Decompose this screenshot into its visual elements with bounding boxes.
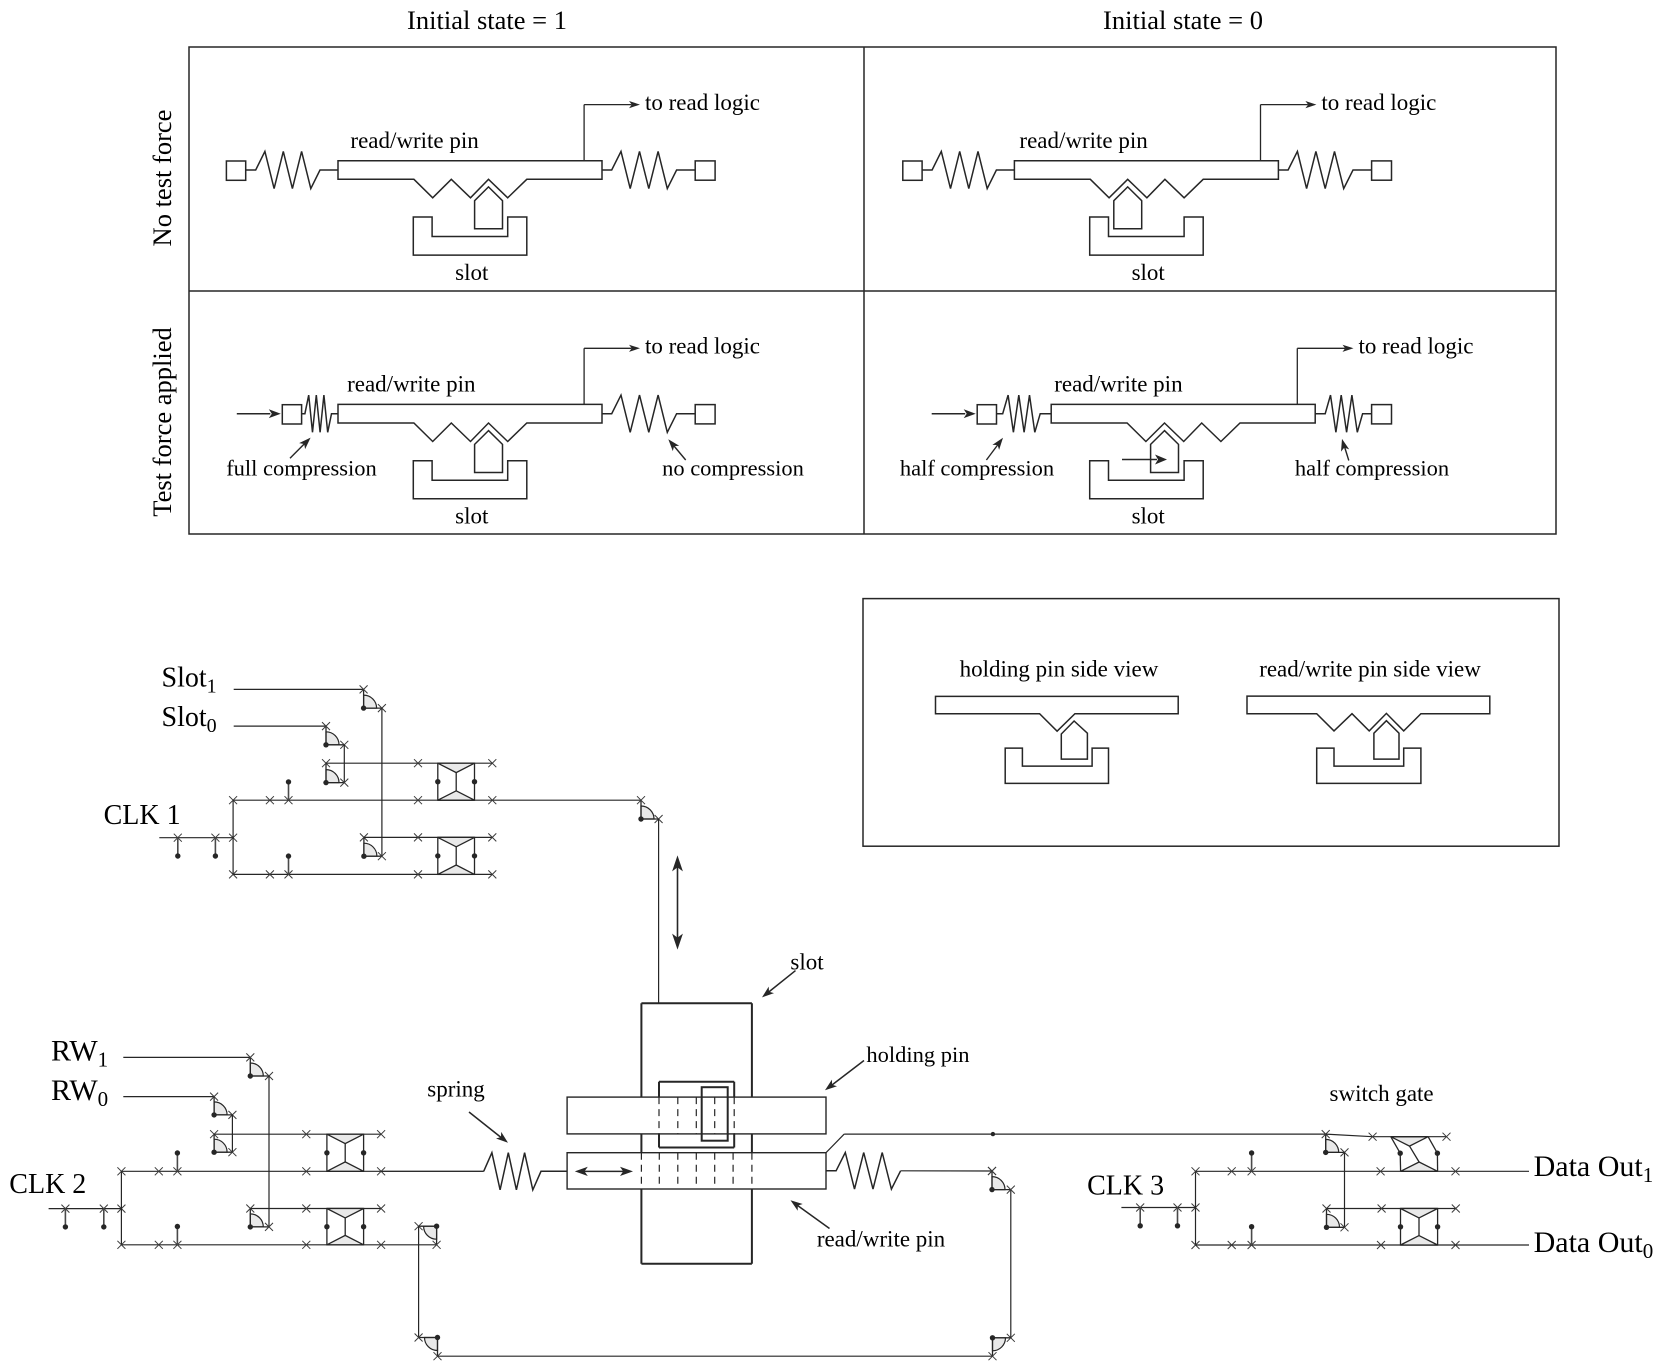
svg-text:Data Out0: Data Out0 bbox=[1534, 1226, 1654, 1263]
read/write pin (side view) slot bbox=[1317, 748, 1421, 783]
switch gate (Data Out1, disengaged) bbox=[1391, 1137, 1440, 1172]
cell C (state1,force): test force arrow (left) bbox=[237, 409, 281, 418]
holding pin (side view) tip bbox=[1061, 721, 1087, 759]
read/write pin right pivot joint bbox=[988, 1167, 1015, 1194]
CLK1 pivot joint (turn down) bbox=[637, 796, 663, 823]
cell C (state1,force): right spring bbox=[602, 395, 695, 432]
CLK1 input wire bbox=[159, 834, 237, 842]
CLK1 upper branch anchor bbox=[285, 779, 293, 804]
cell B (state0,no force): left anchor square bbox=[903, 161, 922, 180]
cell C (state1,force): left anchor square bbox=[282, 405, 301, 424]
bottom-left pivot joint bbox=[415, 1334, 442, 1361]
svg-text:read/write pin: read/write pin bbox=[347, 372, 476, 397]
svg-text:slot: slot bbox=[1132, 260, 1166, 285]
svg-text:half compression: half compression bbox=[1295, 456, 1449, 481]
read/write pin label arrow bbox=[791, 1200, 830, 1228]
svg-text:spring: spring bbox=[427, 1076, 485, 1101]
cell A (state1,no force): right spring bbox=[602, 151, 695, 188]
slot label arrow bbox=[762, 971, 796, 998]
spring (left, CLK2 to pin) bbox=[121, 1153, 567, 1190]
CLK1 lower branch anchor bbox=[285, 853, 293, 878]
cell A (state1,no force): left spring bbox=[246, 151, 338, 188]
svg-text:CLK 3: CLK 3 bbox=[1087, 1171, 1164, 1202]
cell B (state0,no force): slot bracket bbox=[1090, 217, 1204, 255]
cell D (state0,force): pin tip bbox=[1151, 431, 1179, 473]
svg-text:Initial state = 1: Initial state = 1 bbox=[407, 5, 567, 35]
svg-text:full compression: full compression bbox=[226, 456, 377, 481]
CLK2 upper branch wire bbox=[121, 1167, 483, 1175]
read/write pin side view label bbox=[1259, 657, 1481, 682]
cell A (state1,no force): left anchor square bbox=[226, 161, 245, 180]
holding pin label bbox=[866, 1042, 969, 1067]
cell D half compression arrow (right) bbox=[1341, 439, 1349, 461]
cell B (state0,no force): wire to read logic bbox=[1261, 101, 1317, 161]
RW0 vertical wire bbox=[231, 1115, 233, 1152]
spring label arrow bbox=[469, 1112, 508, 1143]
Slot0 vertical wire bbox=[343, 745, 345, 783]
Data Out1 label bbox=[1534, 1150, 1654, 1187]
cell C (state1,force): left spring (fully compressed) bbox=[302, 395, 338, 432]
svg-text:read/write pin: read/write pin bbox=[1019, 128, 1148, 153]
svg-text:no compression: no compression bbox=[662, 456, 804, 481]
cell C no compression arrow bbox=[668, 439, 685, 460]
cell D (state0,force): read/write pin bar bbox=[1051, 404, 1315, 441]
holding pin (side view) slot bbox=[1005, 748, 1108, 783]
cell D (state0,force): slot bracket bbox=[1090, 461, 1204, 499]
svg-text:half compression: half compression bbox=[900, 456, 1054, 481]
Slot1 pivot joint (turn right) bbox=[360, 833, 386, 860]
slot hole (top view) bbox=[659, 1082, 734, 1148]
table row divider bbox=[189, 290, 1556, 292]
cell D (state0,force): wire to read logic bbox=[1297, 345, 1353, 405]
RW0 output wire bbox=[214, 1130, 385, 1138]
RW1 wire bbox=[123, 1056, 250, 1058]
read/write pin output diagonal bbox=[826, 1134, 844, 1153]
Slot0 output wire bbox=[326, 759, 496, 767]
row title: Test force applied bbox=[147, 327, 177, 516]
wire spring feed bbox=[381, 1170, 484, 1172]
switch gate label bbox=[1330, 1081, 1434, 1106]
svg-text:Initial state = 0: Initial state = 0 bbox=[1103, 5, 1263, 35]
transmission element (Data Out0 gate) bbox=[1398, 1209, 1441, 1246]
output wire slope to switch gate bbox=[1326, 1133, 1451, 1141]
cell D (state0,force): test force arrow (left) bbox=[932, 409, 976, 418]
holding pin (side view) bar bbox=[936, 696, 1179, 731]
transmission element (Slot1/CLK1) bbox=[435, 837, 477, 874]
cell A (state1,no force): slot bracket bbox=[413, 217, 527, 255]
cell A (state1,no force): pin tip bbox=[475, 187, 503, 229]
table column divider bbox=[863, 47, 865, 534]
cell C (state1,force): slot bracket bbox=[413, 461, 527, 499]
slot block (top view) bbox=[641, 1003, 752, 1264]
svg-text:to read logic: to read logic bbox=[645, 90, 760, 115]
read/write pin (side view) tip bbox=[1374, 721, 1399, 759]
svg-text:slot: slot bbox=[1132, 504, 1166, 529]
svg-text:CLK 2: CLK 2 bbox=[9, 1169, 86, 1200]
cell C (state1,force): wire to read logic bbox=[584, 345, 640, 405]
svg-text:slot: slot bbox=[455, 260, 489, 285]
svg-text:read/write pin side view: read/write pin side view bbox=[1259, 657, 1481, 682]
cell A (state1,no force): slot label bbox=[455, 260, 489, 285]
transmission element (Slot0/CLK1) bbox=[435, 763, 477, 800]
CLK2 input anchor 2 bbox=[100, 1205, 108, 1230]
Slot1 output wire bbox=[364, 833, 496, 841]
wire to right pivot bbox=[901, 1167, 996, 1175]
CLK3 input anchor 2 bbox=[1174, 1204, 1182, 1229]
CLK1 input anchor 2 bbox=[211, 834, 219, 859]
cell D (state0,force): right anchor square bbox=[1372, 405, 1392, 424]
hidden slot walls (read/write pin) bbox=[659, 1153, 733, 1189]
CLK3 lower branch wire (Data Out0) bbox=[1196, 1241, 1530, 1249]
right riser wire bbox=[1010, 1190, 1012, 1338]
column title: Initial state = 1 bbox=[407, 5, 567, 35]
cell D half compression label (left) bbox=[900, 456, 1054, 481]
cell B (state0,no force): slot label bbox=[1132, 260, 1166, 285]
transmission element (RW0/CLK2) bbox=[324, 1134, 366, 1171]
RW1 pivot joint (turn down) bbox=[246, 1053, 273, 1080]
transmission element (RW1/CLK2) bbox=[324, 1209, 366, 1245]
CLK2 lower branch wire bbox=[121, 1241, 436, 1249]
read/write pin bar (top view) bbox=[567, 1153, 826, 1189]
read/write pin output wire bbox=[844, 1132, 1325, 1136]
cell B (state0,no force): pin tip bbox=[1114, 187, 1142, 229]
cell D (state0,force): slot label bbox=[1132, 504, 1166, 529]
output wire pivot joint (branch down) bbox=[1322, 1130, 1349, 1156]
svg-text:Test force applied: Test force applied bbox=[147, 327, 177, 516]
Data Out0 gate input wire bbox=[1327, 1205, 1460, 1213]
cell D (state0,force): read/write pin label bbox=[1054, 372, 1183, 397]
svg-text:slot: slot bbox=[455, 504, 489, 529]
cell C (state1,force): read/write pin label bbox=[347, 372, 476, 397]
CLK3 input wire bbox=[1121, 1204, 1199, 1212]
gate feed vertical wire bbox=[1344, 1152, 1346, 1227]
Slot1 wire bbox=[234, 688, 364, 690]
CLK3 upper branch wire (Data Out1) bbox=[1196, 1167, 1530, 1175]
cell A (state1,no force): to read logic label bbox=[645, 90, 760, 115]
CLK1 drop wire to slot bbox=[658, 819, 660, 1003]
hidden slot walls (holding pin) bbox=[678, 1097, 715, 1134]
cell D (state0,force): to read logic label bbox=[1359, 334, 1474, 359]
CLK2 input anchor 1 bbox=[61, 1205, 69, 1230]
cell D half compression arrow (left) bbox=[986, 438, 1003, 460]
svg-text:holding pin: holding pin bbox=[866, 1042, 969, 1067]
cell C (state1,force): slot label bbox=[455, 504, 489, 529]
svg-text:No test force: No test force bbox=[147, 110, 177, 247]
holding pin label arrow bbox=[825, 1061, 864, 1091]
CLK2 pivot joint (turn down) bbox=[415, 1222, 441, 1249]
RW0 pivot joint (turn down) bbox=[210, 1093, 236, 1119]
row title: No test force bbox=[147, 110, 177, 247]
RW0 label bbox=[51, 1074, 108, 1111]
spring label bbox=[427, 1076, 485, 1101]
Slot0 pivot joint (turn right) bbox=[322, 759, 348, 786]
CLK3 upper branch anchor bbox=[1248, 1150, 1256, 1175]
spring (right, pin to joint) bbox=[826, 1153, 901, 1190]
svg-text:holding pin side view: holding pin side view bbox=[960, 657, 1159, 682]
cell C no compression label bbox=[662, 456, 804, 481]
RW1 label bbox=[51, 1035, 108, 1072]
cell B (state0,no force): right anchor square bbox=[1372, 161, 1392, 180]
cell C full compression arrow bbox=[290, 438, 311, 459]
svg-text:to read logic: to read logic bbox=[1321, 90, 1436, 115]
read/write pin label (center) bbox=[817, 1227, 946, 1252]
RW1 pivot joint (turn right) bbox=[246, 1205, 273, 1231]
cell D (state0,force): left anchor square bbox=[977, 405, 996, 424]
RW0 wire bbox=[123, 1096, 214, 1098]
RW1 output wire bbox=[250, 1205, 385, 1213]
read/write pin motion arrow (horizontal) bbox=[575, 1167, 633, 1176]
CLK1 branch vertical bbox=[229, 796, 237, 878]
CLK3 lower branch anchor bbox=[1248, 1224, 1256, 1249]
svg-text:CLK 1: CLK 1 bbox=[104, 800, 181, 831]
cell A (state1,no force): read/write pin bar bbox=[338, 161, 602, 198]
cell C (state1,force): read/write pin bar bbox=[338, 404, 602, 441]
cell B (state0,no force): read/write pin bar bbox=[1014, 161, 1278, 198]
svg-text:to read logic: to read logic bbox=[645, 334, 760, 359]
svg-text:to read logic: to read logic bbox=[1359, 334, 1474, 359]
cell B (state0,no force): left spring bbox=[922, 151, 1014, 188]
cell D (state0,force): right spring (half compressed) bbox=[1315, 395, 1371, 432]
CLK 2 label bbox=[9, 1169, 86, 1200]
Slot0 label bbox=[162, 702, 217, 737]
CLK 3 label bbox=[1087, 1171, 1164, 1202]
slot label (center) bbox=[790, 950, 824, 975]
cell C (state1,force): pin tip bbox=[475, 431, 503, 473]
CLK2 input wire bbox=[49, 1205, 126, 1213]
cell D (state0,force): left spring (half compressed) bbox=[997, 395, 1052, 432]
svg-text:Data Out1: Data Out1 bbox=[1534, 1150, 1654, 1187]
CLK3 input anchor 1 bbox=[1136, 1204, 1144, 1229]
Data Out0 label bbox=[1534, 1226, 1654, 1263]
CLK2 lower branch anchor bbox=[173, 1224, 181, 1249]
read/write pin (side view) bar bbox=[1247, 696, 1490, 731]
CLK2 branch vertical bbox=[117, 1167, 125, 1249]
cell A (state1,no force): right anchor square bbox=[695, 161, 715, 180]
CLK2 drop wire bbox=[418, 1226, 420, 1337]
side view box frame bbox=[863, 599, 1559, 847]
cell B (state0,no force): right spring bbox=[1278, 151, 1371, 188]
cell A (state1,no force): wire to read logic bbox=[584, 101, 640, 161]
svg-text:read/write pin: read/write pin bbox=[350, 128, 479, 153]
slot motion arrow (vertical) bbox=[672, 855, 683, 949]
bottom-right pivot joint bbox=[989, 1334, 1015, 1360]
CLK 1 label bbox=[104, 800, 181, 831]
gate feed pivot joint bbox=[1323, 1205, 1349, 1232]
cell B (state0,no force): read/write pin label bbox=[1019, 128, 1148, 153]
CLK1 input anchor 1 bbox=[174, 834, 182, 859]
cell B (state0,no force): to read logic label bbox=[1321, 90, 1436, 115]
svg-text:read/write pin: read/write pin bbox=[1054, 372, 1183, 397]
holding pin side view label bbox=[960, 657, 1159, 682]
Slot0 wire bbox=[234, 725, 326, 727]
CLK2 upper branch anchor bbox=[173, 1150, 181, 1175]
holding pin bar (top view) bbox=[567, 1097, 826, 1134]
cell A (state1,no force): read/write pin label bbox=[350, 128, 479, 153]
cell C (state1,force): to read logic label bbox=[645, 334, 760, 359]
cell D tip motion arrow bbox=[1122, 455, 1167, 465]
table frame bbox=[189, 47, 1556, 534]
CLK1 lower branch wire bbox=[233, 870, 496, 878]
RW0 pivot joint (turn right) bbox=[210, 1130, 236, 1156]
column title: Initial state = 0 bbox=[1103, 5, 1263, 35]
Slot1 vertical wire bbox=[381, 708, 383, 856]
bottom return wire bbox=[438, 1355, 993, 1357]
cell D half compression label (right) bbox=[1295, 456, 1449, 481]
svg-text:switch gate: switch gate bbox=[1330, 1081, 1434, 1106]
cell C (state1,force): right anchor square bbox=[695, 405, 715, 424]
holding pin tip (top view) bbox=[702, 1087, 728, 1141]
Slot1 pivot joint (turn down) bbox=[360, 685, 386, 712]
CLK3 branch vertical bbox=[1192, 1167, 1200, 1249]
Slot0 pivot joint (turn down) bbox=[322, 722, 348, 749]
RW1 vertical wire bbox=[268, 1076, 270, 1227]
Slot1 label bbox=[162, 662, 217, 697]
CLK1 upper branch wire bbox=[233, 796, 641, 804]
svg-text:read/write pin: read/write pin bbox=[817, 1227, 946, 1252]
cell C full compression label bbox=[226, 456, 377, 481]
